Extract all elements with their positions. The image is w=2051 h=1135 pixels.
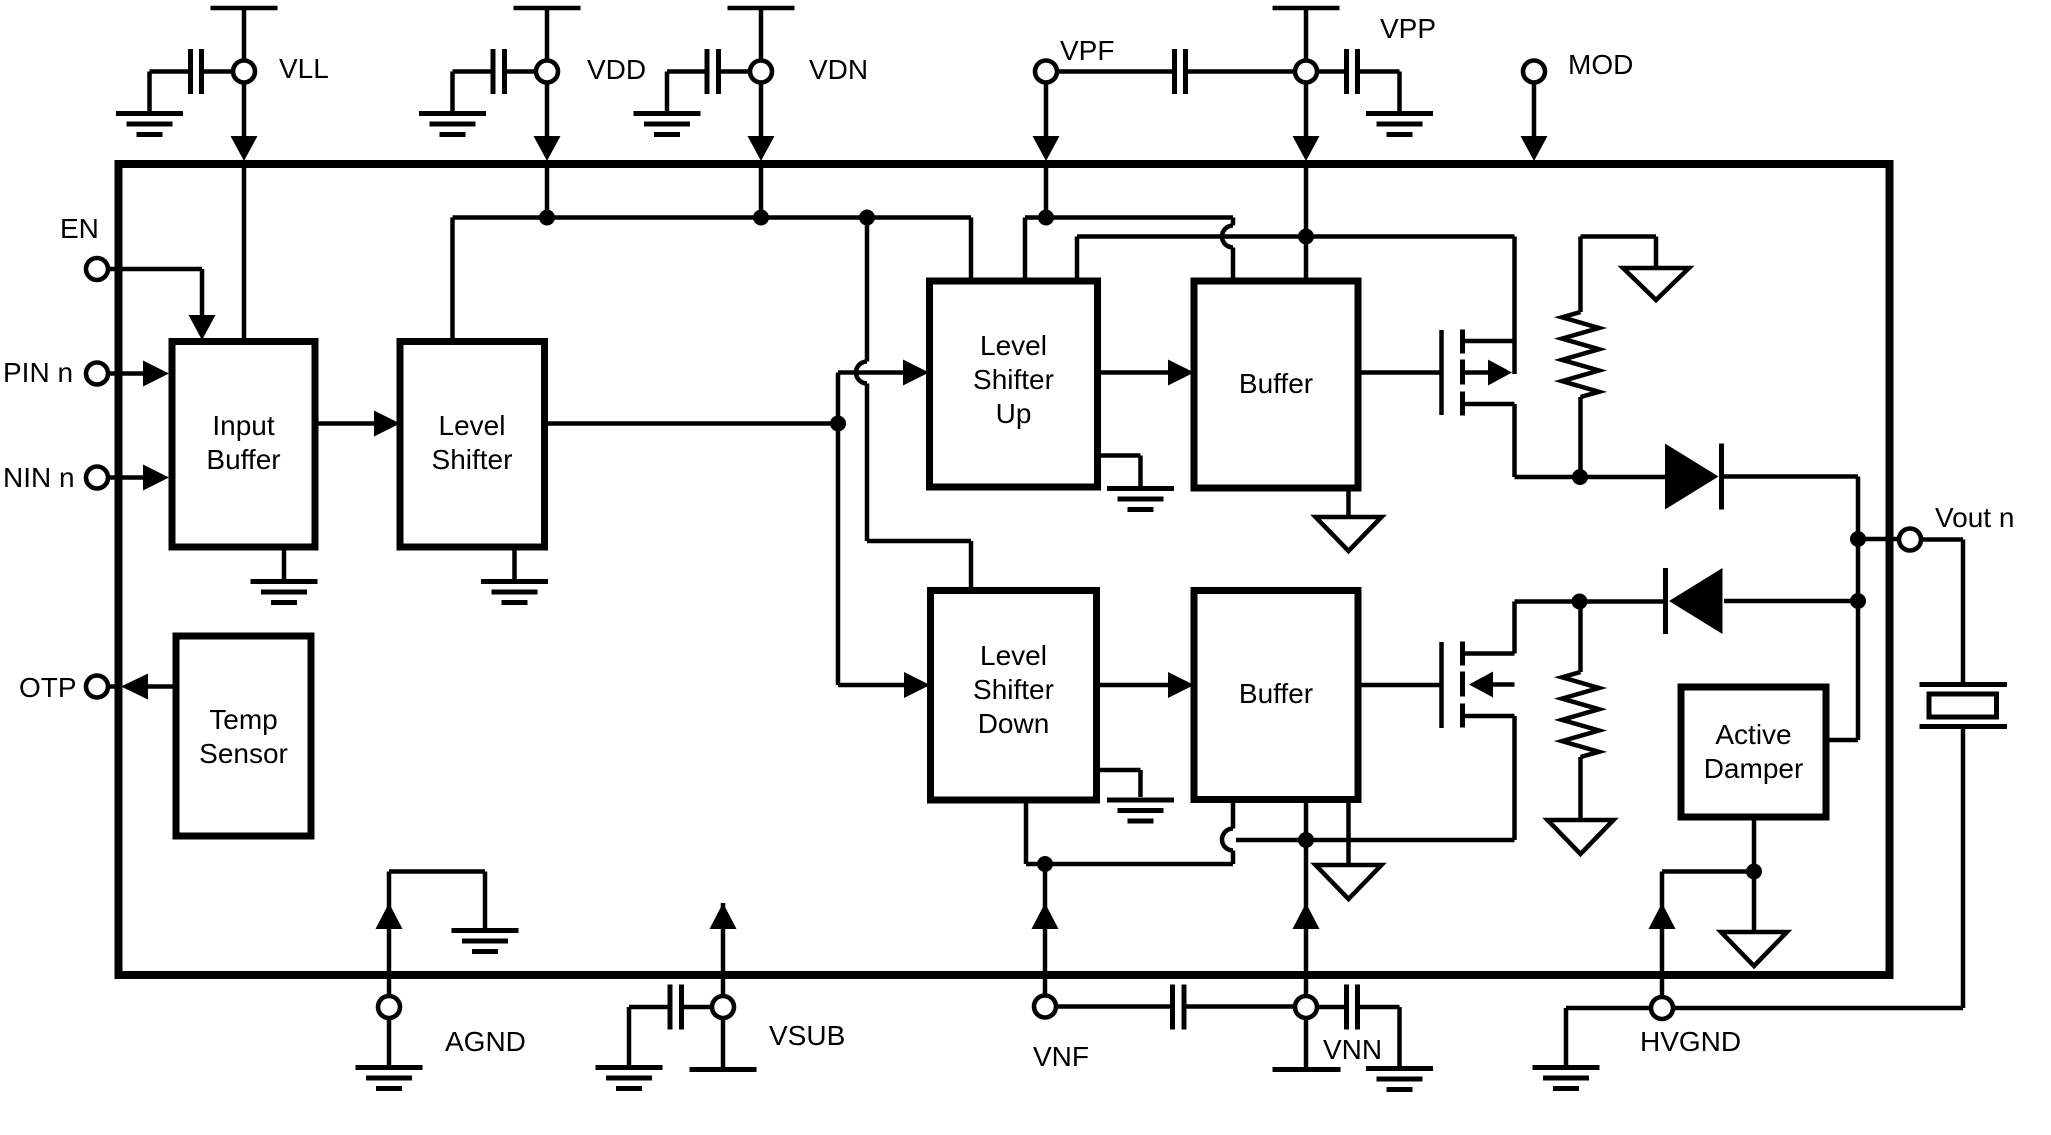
svg-text:VPP: VPP [1380, 13, 1436, 44]
wire VDD stem [545, 8, 550, 61]
wire VPP down [1304, 83, 1309, 138]
svg-text:Buffer: Buffer [206, 444, 280, 475]
wire VDD down [545, 83, 550, 138]
wire VDD inner [545, 167, 550, 218]
ground arrow right of R1 [1623, 268, 1689, 300]
arrow AGND up [376, 903, 403, 929]
capacitor C-VNN [1347, 985, 1358, 1030]
svg-text:MOD: MOD [1568, 49, 1633, 80]
wire VPP cap to ground [1317, 72, 1400, 112]
arrow into Level Shifter Up [903, 360, 929, 386]
arrow into Level Shifter Down [904, 672, 930, 698]
wire VLL stem [242, 8, 247, 61]
capacitor C-VPP [1347, 49, 1358, 94]
resistor R1 [1578, 237, 1583, 313]
ground G-LevelShifter [512, 547, 517, 579]
main IC boundary box [119, 164, 1890, 975]
terminal PIN n [86, 363, 108, 385]
wire to diode D1 [1580, 475, 1665, 480]
terminal VNF [1034, 996, 1056, 1018]
wire VPP stem [1304, 8, 1309, 61]
node VDD bus dot1 [539, 210, 555, 226]
capacitor C-VPF [1175, 49, 1186, 94]
node VNN junction [1298, 832, 1314, 848]
svg-text:Shifter: Shifter [973, 364, 1054, 395]
node Vout lower [1850, 593, 1866, 609]
wire HVGND left to ground [1566, 1008, 1651, 1065]
wire NIN n [108, 475, 144, 480]
terminal EN [86, 258, 108, 280]
power bar VDN [728, 6, 795, 11]
svg-text:Vout n: Vout n [1935, 502, 2014, 533]
arrow HVGND up [1649, 903, 1676, 929]
svg-text:AGND: AGND [445, 1026, 526, 1057]
node Q2 drain R2 [1572, 594, 1588, 610]
transistor Q2 lower MOSFET [1439, 642, 1444, 728]
block Level Shifter Up [930, 281, 1098, 487]
ground G-VSUB [596, 1068, 663, 1089]
block Temp Sensor [176, 636, 311, 836]
wire junction down [1752, 872, 1757, 934]
capacitor C-VNF [1173, 985, 1185, 1030]
wire lower Buffer bottom to LS Down bottom with hop [1026, 800, 1233, 865]
wire VPF branch [1025, 218, 1233, 278]
wire VPF inner [1044, 167, 1049, 218]
ground arrow below lower Buffer [1316, 865, 1382, 899]
block Level Shifter [400, 342, 545, 548]
wire VLL cap [150, 72, 234, 112]
svg-text:Down: Down [978, 708, 1050, 739]
arrow NIN n into Input Buffer [143, 465, 169, 491]
svg-text:Shifter: Shifter [973, 674, 1054, 705]
svg-text:VPF: VPF [1060, 35, 1114, 66]
terminal VDD [536, 61, 558, 83]
terminal VLL [233, 61, 255, 83]
wire Active Damper bottom [1752, 817, 1757, 872]
node VPF dot [1038, 210, 1054, 226]
wire to Level Shifter Down input [838, 424, 905, 686]
terminal MOD [1523, 61, 1545, 83]
arrow into Level Shifter [374, 411, 400, 437]
node HVGND junction [1746, 864, 1762, 880]
wire MOD down [1532, 83, 1537, 138]
wire VDN cap [667, 72, 751, 112]
wire VNF riser [1043, 864, 1048, 995]
svg-text:Temp: Temp [209, 704, 277, 735]
wire EN [108, 269, 202, 316]
wire Level Shifter output [545, 421, 839, 426]
wire VPF to cap [1057, 69, 1175, 74]
capacitor C-VDD [493, 49, 505, 94]
node VPP feed dot [1298, 229, 1314, 245]
svg-text:PIN n: PIN n [3, 357, 73, 388]
wire A to upper Buffer with hop [1222, 218, 1233, 278]
wire Vout to transducer [1921, 540, 1963, 683]
wire VPF down [1044, 83, 1049, 138]
ground G-LSUp [1098, 456, 1141, 487]
ground G-VNN [1366, 1069, 1433, 1090]
svg-text:Damper: Damper [1704, 753, 1804, 784]
power bar VDD [514, 6, 581, 11]
svg-text:OTP: OTP [19, 672, 77, 703]
power bar VLL [211, 6, 278, 11]
ground G-HVGND [1533, 1068, 1600, 1089]
svg-text:VDN: VDN [809, 54, 868, 85]
ground G-VDD [419, 114, 486, 135]
terminal VNN [1295, 996, 1317, 1018]
wire Q2 source down to VNN rail [1236, 716, 1515, 840]
wire Buffer upper ground stub [1346, 488, 1351, 518]
svg-text:Input: Input [212, 410, 274, 441]
terminal VPF [1035, 61, 1057, 83]
wire D1 to Vout node [1722, 477, 1859, 540]
wire cap to VPP [1186, 69, 1296, 74]
arrow PIN n into Input Buffer [143, 361, 169, 387]
block Input Buffer [172, 342, 315, 548]
svg-text:Shifter: Shifter [432, 444, 513, 475]
wire VPP inner [1304, 167, 1309, 278]
svg-text:Buffer: Buffer [1239, 678, 1313, 709]
node Vout upper [1850, 531, 1866, 547]
ground G-LSDown [1097, 770, 1141, 797]
wire upper Buffer to MOSFET gate [1358, 370, 1441, 375]
wire transducer to HVGND line [1961, 729, 1966, 1008]
svg-text:Level: Level [980, 330, 1047, 361]
wire VDN stem [759, 8, 764, 61]
terminal AGND [378, 996, 400, 1018]
arrow VSUB up [710, 903, 737, 929]
node LS output [830, 416, 846, 432]
wire Q1 drain [1512, 237, 1517, 375]
arrow VPF into box [1033, 136, 1060, 161]
wire R1 top to ground arrow [1581, 237, 1657, 270]
arrow into lower Buffer [1168, 672, 1194, 698]
ground G-VLL [116, 114, 183, 135]
wire Q2 drain up [1512, 602, 1517, 654]
wire cap to VNN [1184, 1004, 1295, 1009]
bar VNN bottom [1273, 1067, 1341, 1072]
wire VNN cap to ground [1317, 1007, 1400, 1066]
arrow EN into Input Buffer [189, 315, 216, 340]
wire VSUB below [721, 1018, 726, 1067]
wire VSUB cap to ground [629, 1007, 712, 1065]
arrow VDD into box [534, 136, 561, 161]
bar VSUB bottom [690, 1067, 757, 1072]
svg-text:Active: Active [1715, 719, 1791, 750]
terminal OTP [86, 676, 108, 698]
svg-text:Buffer: Buffer [1239, 368, 1313, 399]
ground G-InputBuffer [282, 547, 287, 579]
arrow VNN up [1293, 903, 1320, 929]
svg-text:VSUB: VSUB [769, 1020, 845, 1051]
svg-text:HVGND: HVGND [1640, 1026, 1741, 1057]
wire VLL down [242, 83, 247, 138]
wire VDN branch down with hop [856, 218, 971, 588]
svg-text:Level: Level [439, 410, 506, 441]
arrow VLL into box [231, 136, 258, 161]
wire VDN down [759, 83, 764, 138]
ground arrow below upper Buffer [1316, 517, 1382, 551]
node VNF junction [1037, 856, 1053, 872]
wire VDN inner [759, 167, 764, 218]
wire Vout through edge [1858, 537, 1899, 542]
terminal VDN [750, 61, 772, 83]
block Level Shifter Down [931, 591, 1097, 801]
terminal VSUB [712, 996, 734, 1018]
transistor Q1 upper MOSFET [1439, 330, 1444, 415]
svg-text:VNN: VNN [1323, 1034, 1382, 1065]
wire VDD cap [453, 72, 537, 112]
wire junction to HVGND [1662, 872, 1754, 998]
ground G-VPP [1366, 114, 1433, 135]
wire lower Buffer to Q2 gate [1358, 683, 1441, 688]
node source R1 diode [1572, 469, 1588, 485]
node VDD bus dot3 [859, 210, 875, 226]
wire Level Shifter Up to Buffer [1098, 370, 1170, 375]
diode D2 [1669, 568, 1723, 634]
transducer XD piezo [1920, 685, 2008, 727]
ground G-VDN [634, 114, 701, 135]
svg-text:Level: Level [980, 640, 1047, 671]
svg-text:Sensor: Sensor [199, 738, 288, 769]
ground G-AGND [356, 1068, 423, 1089]
wire VNN riser [1304, 800, 1309, 997]
wire Level Shifter Down to Buffer [1097, 683, 1170, 688]
diode D1 [1665, 444, 1719, 510]
wire Input Buffer to Level Shifter [315, 421, 375, 426]
wire AGND riser [389, 872, 485, 997]
wire Q1 source [1515, 404, 1581, 477]
arrow MOD into box [1521, 136, 1548, 161]
arrow VDN into box [748, 136, 775, 161]
wire OTP [108, 684, 176, 689]
svg-text:EN: EN [60, 213, 99, 244]
capacitor C-VSUB [670, 985, 682, 1030]
block Active Damper [1681, 687, 1826, 817]
resistor R2 [1578, 602, 1583, 673]
terminal Vout n [1899, 529, 1921, 551]
wire D2 to Vout node [1724, 599, 1858, 604]
block Buffer lower [1194, 591, 1358, 800]
wire VNF to cap [1056, 1004, 1173, 1009]
svg-text:Up: Up [996, 398, 1032, 429]
ground arrow below Active Damper [1721, 932, 1787, 966]
wire B VPP feed [1077, 237, 1515, 278]
wire to Level Shifter Up input [838, 373, 904, 424]
wire VDD bus [453, 218, 972, 339]
wire VSUB riser [721, 903, 726, 996]
ground G-AGND-top [452, 931, 519, 952]
wire HVGND right to transducer [1673, 1006, 1963, 1011]
arrow OTP out of Temp Sensor [121, 674, 148, 700]
ground arrow below R2 [1548, 820, 1614, 854]
wire Vout trunk [1826, 539, 1858, 740]
wire lower Buffer ground stub [1346, 800, 1351, 867]
svg-text:VLL: VLL [279, 53, 329, 84]
wire VLL inner to Input Buffer [242, 167, 247, 339]
power bar VPP [1273, 6, 1340, 11]
svg-text:VNF: VNF [1033, 1041, 1089, 1072]
wire D2 to Q2 drain [1515, 599, 1666, 604]
capacitor C-VLL [191, 49, 202, 94]
arrow VPP into box [1293, 136, 1320, 161]
arrow into upper Buffer [1168, 360, 1194, 386]
wire AGND below [387, 1018, 392, 1065]
terminal VPP [1295, 61, 1317, 83]
terminal HVGND [1651, 997, 1673, 1019]
wire VNN below [1304, 1018, 1309, 1067]
capacitor C-VDN [707, 49, 719, 94]
arrow VNF up [1032, 903, 1059, 929]
svg-text:VDD: VDD [587, 54, 646, 85]
block Buffer upper [1194, 281, 1358, 488]
terminal NIN n [86, 467, 108, 489]
node VDD bus dot2 [753, 210, 769, 226]
svg-text:NIN n: NIN n [3, 462, 75, 493]
wire PIN n [108, 371, 144, 376]
